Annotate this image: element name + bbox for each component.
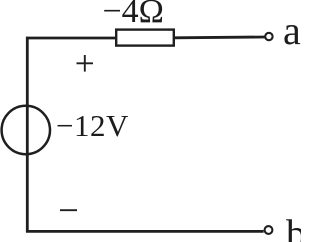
- label - (source polarity minus), drawn stroke: [60, 209, 77, 211]
- label -4 ohm (resistor value): [103, 0, 164, 31]
- terminal a: [265, 33, 272, 40]
- resistor R (4 ohm) body: [116, 30, 174, 46]
- terminal b: [265, 226, 273, 234]
- wire left vertical segment: [26, 37, 29, 233]
- label terminal a: [283, 7, 301, 54]
- label -12V (source value): [56, 108, 129, 144]
- wire bottom segment: [26, 230, 264, 233]
- label + (source polarity plus), drawn strokes: [77, 62, 94, 64]
- voltage source V1 circle: [2, 106, 50, 154]
- wire top-right segment: [174, 36, 265, 40]
- wire top-left segment: [26, 37, 116, 40]
- label terminal b: [286, 210, 306, 242]
